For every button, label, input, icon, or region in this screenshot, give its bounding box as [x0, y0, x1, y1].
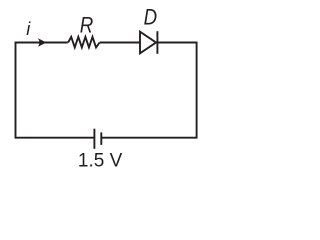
svg-text:i: i: [26, 19, 31, 39]
current arrow on top-left wire: [38, 38, 47, 46]
wire from battery long plate through left side up to resistor: [16, 43, 95, 138]
svg-text:1.5 V: 1.5 V: [78, 151, 123, 172]
battery short plate (negative terminal): [100, 132, 102, 145]
wire from diode cathode through right side down to battery short plate: [101, 43, 196, 138]
svg-text:R: R: [80, 14, 94, 38]
diode D triangle (anode): [140, 32, 156, 54]
diode D cathode bar: [156, 31, 158, 54]
resistor R zigzag: [68, 37, 100, 48]
svg-text:D: D: [144, 6, 158, 30]
battery long plate (positive terminal): [93, 129, 95, 149]
wire top segment between resistor and diode: [100, 42, 140, 44]
